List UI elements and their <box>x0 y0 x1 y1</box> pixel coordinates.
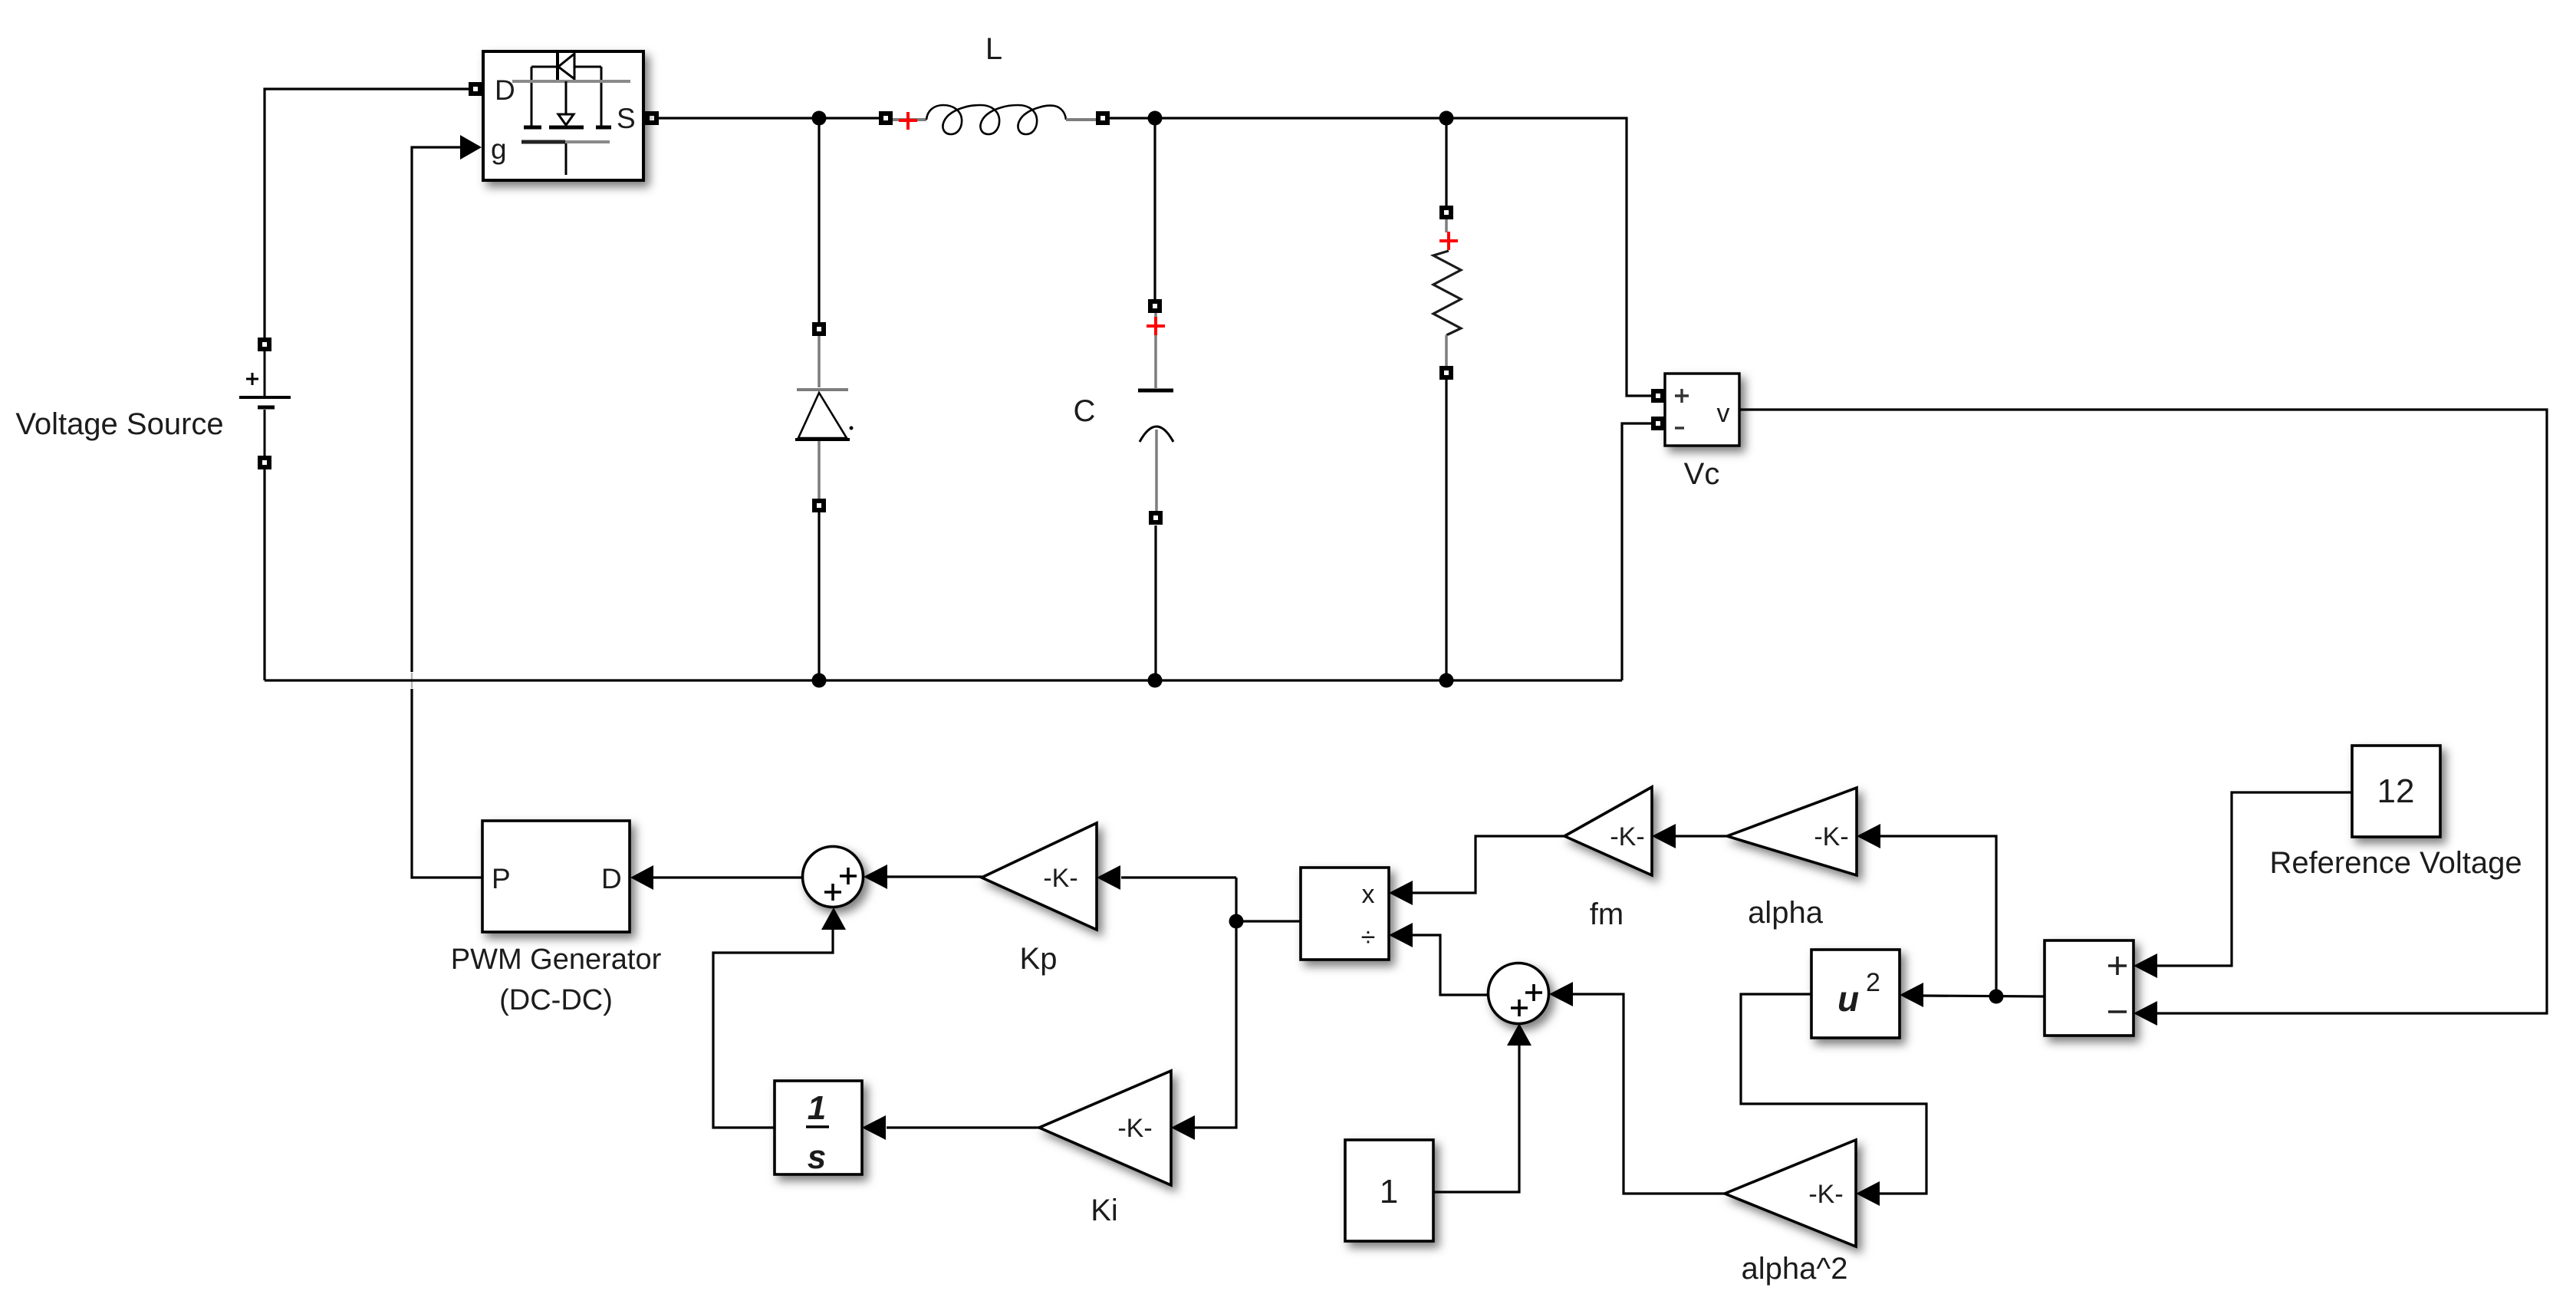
svg-text:S: S <box>617 103 636 134</box>
svg-text:L: L <box>985 32 1002 66</box>
svg-text:Vc: Vc <box>1684 457 1720 491</box>
svg-text:u: u <box>1837 979 1859 1019</box>
svg-text:x: x <box>1362 880 1375 909</box>
svg-text:1: 1 <box>1380 1173 1398 1210</box>
svg-text:-K-: -K- <box>1808 1180 1843 1209</box>
svg-text:D: D <box>601 863 622 894</box>
svg-text:D: D <box>495 74 515 106</box>
svg-text:(DC-DC): (DC-DC) <box>499 984 613 1016</box>
svg-text:Voltage Source: Voltage Source <box>15 407 223 441</box>
svg-text:Reference Voltage: Reference Voltage <box>2269 846 2522 880</box>
svg-text:fm: fm <box>1590 897 1624 931</box>
svg-text:-K-: -K- <box>1610 822 1644 851</box>
svg-text:alpha^2: alpha^2 <box>1742 1252 1848 1286</box>
svg-text:-K-: -K- <box>1043 864 1077 893</box>
svg-text:Ki: Ki <box>1091 1194 1118 1227</box>
svg-text:2: 2 <box>1866 968 1880 997</box>
svg-text:1: 1 <box>808 1089 826 1127</box>
svg-text:v: v <box>1717 399 1730 428</box>
svg-text:Kp: Kp <box>1020 942 1058 976</box>
svg-text:-K-: -K- <box>1814 822 1848 851</box>
svg-text:P: P <box>492 863 511 894</box>
svg-text:alpha: alpha <box>1748 896 1824 930</box>
svg-text:C: C <box>1074 394 1096 428</box>
svg-text:s: s <box>808 1138 826 1176</box>
svg-text:g: g <box>491 133 507 165</box>
svg-text:12: 12 <box>2377 772 2415 810</box>
svg-text:÷: ÷ <box>1361 923 1376 952</box>
svg-text:-K-: -K- <box>1117 1114 1152 1143</box>
svg-text:PWM Generator: PWM Generator <box>451 944 662 976</box>
